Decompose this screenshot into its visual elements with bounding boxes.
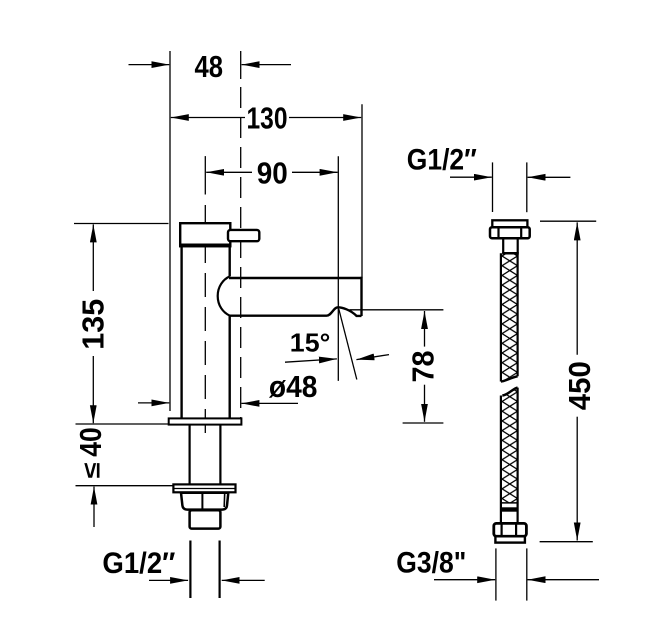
svg-text:ø48: ø48 [269, 369, 318, 404]
spout bottom line with aerator bump [229, 307, 362, 316]
faucet body right line upper [228, 247, 230, 276]
G1/2 hose left arrow [450, 176, 492, 178]
supply pipe left [189, 541, 191, 599]
hose lower right wall [516, 388, 518, 524]
dimension 78 top arrow [424, 311, 426, 347]
hose upper break cut [501, 376, 518, 381]
faucet cap bottom thick edge [179, 243, 232, 247]
dimension 78 bottom extension line [403, 422, 444, 424]
svg-text:450: 450 [562, 361, 597, 410]
extension line right of 48 (solid top) [240, 51, 242, 79]
G1/2 hose dim extension right [526, 162, 528, 212]
threaded shank right [219, 426, 221, 485]
svg-text:G1/2″: G1/2″ [407, 144, 477, 177]
hose bottom plate [495, 536, 525, 542]
hex nut facet line 2 [223, 493, 226, 507]
G1/2 bottom left arrow [149, 579, 188, 581]
dimension 78 top extension line [350, 309, 444, 311]
svg-text:130: 130 [247, 101, 288, 136]
svg-text:15°: 15° [290, 328, 331, 358]
dimension 135 bottom arrow [92, 356, 94, 423]
dimension 78 bottom arrow [424, 385, 426, 422]
hose top plate [492, 220, 527, 227]
dimension 130 right arrow [289, 117, 361, 119]
dimension 15° left arrow [285, 359, 337, 362]
dimension 450 bottom extension line [540, 541, 593, 543]
hose upper braid fill [502, 255, 517, 381]
dimension 135 top extension line [74, 223, 169, 225]
svg-text:G3/8": G3/8" [396, 546, 466, 579]
mounting hex nut [181, 493, 228, 510]
dimension 48 right arrow [242, 64, 291, 66]
svg-text:48: 48 [195, 49, 224, 84]
spout outlet centerline [337, 156, 339, 381]
hose neck left [502, 238, 504, 253]
dimension 135 top arrow [92, 224, 94, 291]
hose lower braid fill [502, 389, 517, 503]
G3/8 dim extension left [495, 548, 497, 600]
spout tip line [360, 277, 362, 316]
hose top hex facet 1 [497, 227, 499, 238]
spout root bulge [218, 276, 230, 315]
dimension ≤40 bottom arrow [93, 487, 95, 527]
hose bottom nut [494, 523, 527, 536]
hose bottom nut facet 2 [515, 523, 517, 536]
hose braid end line [501, 502, 518, 504]
dimension ≤40 lower extension line [76, 485, 174, 487]
hose neck right [517, 238, 519, 253]
hose top hex nut [490, 227, 530, 238]
hose upper left wall [500, 253, 502, 381]
dimension ø48 left arrow [138, 402, 169, 404]
dimension 450 top extension line [540, 220, 596, 222]
faucet handle [228, 230, 259, 241]
hose crimp band [501, 507, 518, 511]
washer inner line [173, 488, 235, 490]
svg-text:≤: ≤ [79, 462, 106, 478]
hose lower left wall [500, 396, 502, 524]
G1/2 bottom right arrow [222, 579, 265, 581]
G3/8 left arrow [434, 579, 495, 581]
15° slant line [339, 309, 357, 380]
hose neck band [502, 252, 519, 255]
G1/2 hose dim extension left [492, 162, 494, 212]
svg-text:G1/2″: G1/2″ [102, 547, 175, 580]
dimension 450 top arrow [576, 222, 578, 354]
extension line right of 48 (dashed part) [240, 87, 242, 418]
G1/2 hose right arrow [528, 176, 571, 178]
faucet body left line [180, 247, 182, 418]
mounting surface extension line [76, 423, 174, 425]
faucet centerline solid top [204, 156, 206, 194]
dimension 130 left arrow [171, 117, 245, 119]
dimension 90 left arrow [206, 171, 252, 173]
hose lower break cut [502, 388, 517, 396]
dimension ø48 right arrow [241, 402, 298, 404]
svg-text:78: 78 [406, 351, 441, 383]
supply pipe right [219, 541, 221, 599]
hex nut facet line 1 [201, 493, 203, 510]
faucet body right line lower [228, 316, 230, 419]
faucet cap [180, 223, 230, 246]
hose top hex facet 2 [520, 227, 522, 238]
svg-text:40: 40 [73, 427, 108, 457]
svg-text:90: 90 [257, 155, 288, 190]
washer [173, 484, 235, 492]
spout top line [229, 277, 362, 279]
supply connector block [190, 510, 221, 528]
threaded shank left [189, 426, 191, 485]
G3/8 right arrow [528, 579, 600, 581]
dimension 15° right arrow [356, 355, 389, 360]
spout tip extension line [361, 104, 363, 277]
hose bottom nut facet 1 [501, 523, 503, 536]
faucet base flange [169, 418, 242, 424]
dimension 48 left arrow [129, 64, 170, 66]
svg-text:135: 135 [75, 299, 110, 350]
hose upper right wall [516, 253, 518, 376]
extension line left (48/130/ø48 boundary) [169, 51, 171, 411]
G3/8 dim extension right [526, 548, 528, 600]
dimension 90 right arrow [292, 171, 338, 173]
dimension 450 bottom arrow [576, 417, 578, 541]
faucet centerline dashed [204, 205, 206, 440]
